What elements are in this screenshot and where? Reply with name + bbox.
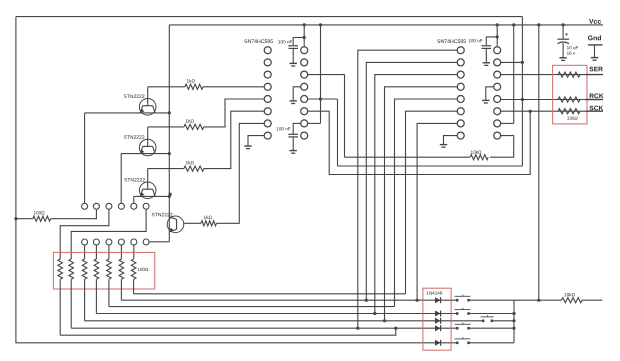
- U1 pin 15 pad: [301, 59, 308, 66]
- wire U2 pin1 output: [358, 50, 458, 328]
- resistor R12 100ohm: [131, 259, 136, 279]
- U1 pin 9 pad: [301, 132, 308, 139]
- wire C4 to ground: [562, 43, 564, 58]
- wire U1 pin10 cap branch: [293, 123, 301, 134]
- wire C3 to ground: [485, 48, 487, 62]
- node v4-row5: [383, 319, 386, 322]
- wire R5 to Q4 base: [184, 222, 201, 224]
- U1 pin 2 pad: [264, 59, 271, 66]
- wire J1 pad2 to R1: [51, 209, 97, 218]
- U1 pin 1 pad: [264, 47, 271, 54]
- diode D3 1N4148: [435, 318, 441, 324]
- wire cap C1 branch: [293, 38, 304, 46]
- diode D5 1N4148: [435, 340, 441, 346]
- ground C3: [483, 62, 490, 64]
- wire U2 pin5 output: [395, 99, 458, 307]
- wire U1 pin14 right: [307, 74, 344, 76]
- wire Q3 base stem: [147, 169, 149, 190]
- wire U2 pin15 right: [500, 61, 522, 63]
- node rail-bus corner / transistor collector bus: [168, 25, 170, 242]
- wire row6 segment bus: [71, 327, 456, 329]
- U2 pin 9 pad: [494, 132, 501, 139]
- node pin15 junction: [521, 61, 524, 64]
- resistor R11 100ohm: [119, 259, 124, 279]
- svg-text:1kΩ: 1kΩ: [203, 215, 212, 220]
- wire row5 segment bus: [85, 320, 482, 322]
- svg-text:16 v: 16 v: [567, 51, 576, 56]
- ground terminal: [591, 57, 598, 59]
- highlight box resistor bank: [53, 252, 154, 289]
- U1 pin 14 pad: [301, 71, 308, 78]
- wire row1 segment bus: [134, 293, 406, 295]
- connector J1 row1 pad 2: [93, 203, 99, 209]
- wire R17 tail: [582, 299, 602, 301]
- wire Q1 emitter drop to J1 pad1: [84, 113, 86, 203]
- svg-text:STN2222: STN2222: [151, 212, 172, 218]
- ground U1 pin8: [244, 145, 251, 147]
- U1 pin 16 pad: [301, 47, 308, 54]
- wire SCK row: [500, 110, 586, 112]
- wire U2 pin3 output: [375, 75, 458, 314]
- wire J1 pad3 to R6 top: [60, 209, 109, 259]
- diode D2 1N4148: [435, 311, 441, 317]
- transistor Q2 STN2222: [123, 135, 156, 156]
- node row7-row6 junction: [394, 327, 397, 330]
- node border-R1: [14, 217, 17, 220]
- switch S5: [456, 342, 459, 345]
- capacitor C4 lead: [562, 25, 564, 39]
- wire U2 pin10 right: [500, 122, 513, 124]
- wire U1 pin14 drop x=344.5: [344, 75, 346, 158]
- svg-text:SN74HC595: SN74HC595: [244, 39, 273, 45]
- wire J1 row2 pad9 lead: [108, 245, 110, 259]
- wire U1 pin5 jog: [204, 99, 265, 127]
- wire R13 to pin14 riser: [345, 156, 470, 158]
- resistor R3 1k: [184, 124, 204, 129]
- wire row5 after switch: [493, 320, 514, 322]
- wire U1 pin10 right: [307, 122, 320, 124]
- wire U1 pin6 jog: [204, 111, 265, 168]
- svg-text:1N4148: 1N4148: [426, 291, 443, 296]
- svg-text:SN74HC595: SN74HC595: [437, 39, 466, 45]
- wire left and bottom border becomes switch row 5: [16, 17, 457, 343]
- wire Vcc drop to switches: [538, 25, 540, 300]
- U2 pin 13 pad: [494, 83, 501, 90]
- U2 pin 10 pad: [494, 120, 501, 127]
- wire R10 bottom lead: [108, 279, 110, 306]
- wire switch5 to common: [469, 342, 514, 344]
- svg-text:100 nF: 100 nF: [468, 38, 482, 43]
- U1 pin 4 pad: [264, 83, 271, 90]
- resistor R8 100ohm: [82, 259, 87, 279]
- capacitor C1 100nF plates: [288, 45, 298, 47]
- U1 pin 3 pad: [264, 71, 271, 78]
- wire R3 to Q2 base: [148, 126, 184, 128]
- wire R11 bottom lead: [120, 279, 122, 300]
- wire row2 after switch: [469, 299, 514, 301]
- wire h2 horizontal y=166: [338, 165, 523, 167]
- connector J1 row2 pad 11: [131, 239, 137, 245]
- connector J1 row2 pad 10: [118, 239, 124, 245]
- svg-text:100Ω: 100Ω: [137, 267, 149, 272]
- wire R1 to border: [16, 218, 33, 220]
- U1 pin 6 pad: [264, 108, 271, 115]
- node sw4 junction: [512, 327, 515, 330]
- connector J1 row2 pad 7: [82, 239, 88, 245]
- ground U2 pin13: [482, 99, 489, 101]
- node Q1-bus: [168, 111, 171, 114]
- wire U2 pin2 output: [366, 62, 457, 300]
- node rail-U2pin10: [512, 23, 515, 26]
- svg-text:STN2222: STN2222: [123, 135, 144, 141]
- wire U1 pin13 to ground: [293, 87, 301, 101]
- wire pin10 riser to rail: [320, 25, 322, 124]
- node SCK junction: [529, 110, 532, 113]
- wire h2 riser x=337.5: [337, 99, 339, 166]
- Vcc rail: [169, 24, 603, 26]
- svg-text:RCK: RCK: [589, 93, 604, 100]
- wire J1 row2 pad10 lead: [120, 245, 122, 259]
- wire Q2 emitter-collector row: [121, 153, 169, 155]
- connector J1 row1 pad 6: [143, 203, 149, 209]
- svg-text:10kΩ: 10kΩ: [564, 292, 576, 297]
- wire U2 pin8 to ground: [444, 136, 458, 145]
- connector J1 row2 pad 8: [93, 239, 99, 245]
- node v7-row2: [416, 299, 419, 302]
- resistor R1 100ohm: [33, 216, 51, 221]
- ground U1 pin13: [290, 100, 297, 102]
- wire R6 bottom lead: [59, 279, 61, 335]
- svg-text:100Ω: 100Ω: [33, 210, 45, 215]
- resistor R14 330ohm SER: [558, 72, 580, 77]
- node RCK junction: [521, 98, 524, 101]
- ground C2: [290, 150, 297, 152]
- node v2-row2: [365, 299, 368, 302]
- wire Q2 emitter drop to J1 pad4: [120, 154, 122, 204]
- svg-text:1kΩ: 1kΩ: [185, 119, 194, 124]
- wire RCK row: [500, 99, 586, 101]
- highlight box input resistors: [553, 65, 587, 124]
- U1 pin 7 pad: [264, 120, 271, 127]
- resistor R15 330ohm RCK: [558, 97, 580, 102]
- resistor R2 1k: [185, 84, 203, 89]
- diode D1 1N4148: [435, 297, 441, 303]
- svg-text:100 nF: 100 nF: [276, 126, 290, 131]
- node sw2 junction: [512, 312, 515, 315]
- node rail-U1vcc: [303, 23, 306, 26]
- wire U1 pin12 right: [307, 98, 337, 100]
- node rail-switch: [537, 23, 540, 26]
- connector J1 row1 pad 3: [106, 203, 112, 209]
- wire Q4 emitter drop: [149, 241, 169, 243]
- wire row4 segment bus: [96, 313, 456, 315]
- resistor R9 100ohm: [94, 259, 99, 279]
- switch S4: [456, 327, 459, 330]
- wire Q3 emitter drop to J1 pad5: [133, 196, 135, 203]
- wire U1 pin8 to ground: [248, 136, 265, 146]
- wire row4 after switch: [469, 313, 514, 315]
- svg-text:10kΩ: 10kΩ: [470, 150, 482, 155]
- resistor R5 1k: [201, 221, 217, 226]
- node rail-C4: [562, 23, 565, 26]
- wire U1 Vcc drop to pin16: [303, 25, 305, 47]
- svg-text:STN2222: STN2222: [123, 94, 144, 100]
- resistor R16 330ohm SCK: [558, 109, 580, 114]
- wire R9 bottom lead: [95, 279, 97, 313]
- wire Q3 emitter-collector row: [134, 195, 170, 197]
- wire J1 pad6 to R7 top: [71, 209, 146, 259]
- resistor R17 10k: [562, 298, 583, 303]
- wire J1 row2 pad7 lead: [84, 245, 86, 259]
- wire R12 bottom lead: [133, 279, 135, 294]
- resistor R7 100ohm: [69, 259, 74, 279]
- svg-text:Gnd: Gnd: [588, 35, 602, 42]
- node Q2-bus: [168, 152, 171, 155]
- wire J1 row2 pad8 lead: [95, 245, 97, 259]
- wire cap C3 branch: [486, 37, 497, 45]
- wire Gnd to ground: [594, 45, 596, 58]
- wire C2 to ground: [292, 137, 294, 151]
- U2 pin 3 pad: [457, 71, 464, 78]
- svg-text:STN2222: STN2222: [124, 178, 145, 184]
- node rail-pin10: [319, 23, 322, 26]
- wire R7 bottom lead: [70, 279, 72, 328]
- node switch common: [537, 299, 540, 302]
- U1 pin 11 pad: [301, 108, 308, 115]
- wire switch common vertical: [513, 300, 515, 343]
- highlight box diodes: [423, 288, 451, 350]
- svg-text:1kΩ: 1kΩ: [186, 79, 195, 84]
- wire row7 segment bus jog up: [60, 328, 396, 335]
- wire U2 pin9 cascade: [490, 136, 514, 158]
- wire U1 pin7 jog down: [217, 123, 265, 223]
- wire R4 to Q3 base: [148, 168, 184, 170]
- resistor R10 100ohm: [107, 259, 112, 279]
- connector J1 row1 pad 4: [118, 203, 124, 209]
- capacitor C2 100nF plates: [288, 133, 298, 135]
- node Q3-bus: [168, 195, 171, 198]
- U2 pin 5 pad: [457, 96, 464, 103]
- U2 pin 15 pad: [494, 59, 501, 66]
- ground C4: [559, 57, 566, 59]
- node rail-U2vcc: [496, 23, 499, 26]
- connector J1 row2 pad 9: [106, 239, 112, 245]
- U1 pin 10 pad: [301, 120, 308, 127]
- node U1 cap junction: [303, 36, 306, 39]
- connector J1 row1 pad 5: [131, 203, 137, 209]
- svg-text:Vcc: Vcc: [589, 19, 601, 26]
- svg-text:1kΩ: 1kΩ: [185, 160, 194, 165]
- wire C1 to ground: [292, 48, 294, 63]
- U2 pin 7 pad: [457, 120, 464, 127]
- capacitor C4 10uF plates: [558, 38, 570, 40]
- transistor Q1 STN2222: [123, 94, 156, 115]
- resistor R6 100ohm: [58, 259, 63, 279]
- wire U1 pin11 route: [307, 111, 530, 174]
- U2 pin 11 pad: [494, 108, 501, 115]
- svg-text:100 nF: 100 nF: [278, 39, 292, 44]
- transistor Q4 STN2222: [151, 212, 183, 232]
- wire row3 segment bus: [109, 306, 395, 308]
- diode D4 1N4148: [435, 325, 441, 331]
- transistor Q3 STN2222: [124, 178, 156, 199]
- terminal RCK bar: [586, 99, 604, 101]
- terminal Gnd bar: [588, 44, 603, 46]
- wire Q2 base stem: [147, 127, 149, 146]
- U2 pin 16 pad: [494, 47, 501, 54]
- wire U2 pin4 output: [385, 87, 458, 321]
- node U2 cap junction: [496, 35, 499, 38]
- terminal SER bar: [586, 74, 604, 76]
- connector J1 row2 pad 12: [143, 239, 149, 245]
- U2 pin 6 pad: [457, 108, 464, 115]
- ground C1: [290, 62, 297, 64]
- wire h2 to U1 pin12: [307, 98, 337, 100]
- wire SER row: [500, 74, 586, 76]
- switch S3 (middle): [482, 320, 485, 323]
- U1 pin 5 pad: [264, 96, 271, 103]
- wire J1 row2 pad11 lead: [133, 245, 135, 259]
- node pin12 junction: [319, 97, 322, 100]
- wire U2 pin13 to ground: [486, 87, 494, 101]
- U1 pin 8 pad: [264, 132, 271, 139]
- U2 pin 1 pad: [457, 47, 464, 54]
- svg-text:10 uF: 10 uF: [567, 45, 579, 50]
- U2 pin 2 pad: [457, 59, 464, 66]
- U2 pin 14 pad: [494, 71, 501, 78]
- U2 pin 4 pad: [457, 83, 464, 90]
- wire U2 pin6 output: [406, 111, 458, 294]
- wire U2 pin7 output: [417, 123, 457, 300]
- wire pin10 riser to rail: [513, 25, 515, 124]
- wire Q1 base stem: [147, 87, 149, 106]
- wire top edge: [16, 16, 523, 18]
- svg-text:330Ω: 330Ω: [567, 116, 578, 121]
- svg-text:SER: SER: [589, 66, 603, 73]
- svg-text:SCK: SCK: [589, 105, 603, 112]
- connector J1 row1 pad 1: [82, 203, 88, 209]
- U1 pin 12 pad: [301, 96, 308, 103]
- wire row2 segment bus: [121, 299, 456, 301]
- wire right loop down at x=522: [521, 17, 523, 166]
- wire U2 Vcc drop to pin16: [496, 25, 498, 47]
- wire Q4 base: [183, 222, 185, 224]
- U2 pin 8 pad: [457, 132, 464, 139]
- node v3-row4: [373, 312, 376, 315]
- wire Q1 emitter-collector row: [85, 112, 170, 114]
- wire switch common to R17: [514, 299, 562, 301]
- wire U1 pin4 to R2 row: [203, 86, 265, 88]
- wire R8 bottom lead: [84, 279, 86, 321]
- capacitor C3 100nF plates: [482, 45, 492, 47]
- node v1-row6: [356, 327, 359, 330]
- wire row6 after switch: [469, 327, 514, 329]
- node sw3 junction: [512, 319, 515, 322]
- svg-text:+: +: [565, 32, 568, 38]
- resistor R4 1k: [184, 166, 204, 171]
- node Q4 collector-bus: [169, 193, 172, 196]
- terminal SCK bar: [586, 110, 604, 112]
- switch S2: [456, 312, 459, 315]
- U1 pin 13 pad: [301, 83, 308, 90]
- resistor R13 10k: [470, 155, 488, 160]
- switch S1: [456, 299, 459, 302]
- U2 pin 12 pad: [494, 96, 501, 103]
- ground U2 pin8: [440, 144, 447, 146]
- wire R2 to Q1 base: [148, 86, 185, 88]
